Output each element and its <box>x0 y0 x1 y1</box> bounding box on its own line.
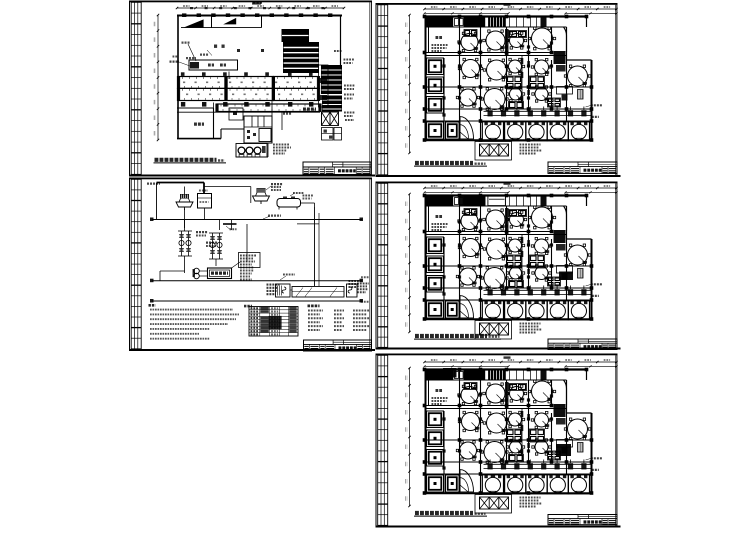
sheet1 (ground floor plan) left margin strip <box>131 2 141 174</box>
sheet4 (2F water plan) left margin strip <box>378 183 388 347</box>
AHU right margin labels <box>357 277 370 302</box>
sheet1 caption <box>154 160 227 163</box>
chilled pump labels <box>206 243 218 246</box>
supply air duct run 3 <box>272 76 320 101</box>
water inlet note <box>147 183 160 185</box>
sheet4 title block <box>548 339 617 350</box>
sheet5 (2F exhaust plan) outer frame <box>376 354 621 528</box>
sheet4 (2F water plan) outer frame <box>376 182 621 350</box>
sheet1 building outline <box>177 15 342 139</box>
right building wall upper <box>340 15 342 66</box>
chilled pump branch group <box>209 233 223 266</box>
pumps beside chiller <box>193 268 208 279</box>
sheet3 (water schematic) left margin strip <box>131 179 141 349</box>
elevator x-shaft <box>322 112 339 126</box>
chiller spec annotation <box>232 253 261 280</box>
horizontal chiller condenser <box>277 193 304 210</box>
sheet4 white shaft box <box>488 196 506 205</box>
small top-left labels <box>200 50 212 56</box>
top header pipes <box>157 183 251 220</box>
sheet2 (2F air plan) outer frame <box>376 3 621 177</box>
sheet5 title block <box>548 515 617 525</box>
main pipe header 2 <box>150 271 363 282</box>
condenser pump branch group <box>178 220 192 274</box>
condenser pump labels <box>196 232 208 235</box>
notes list <box>149 305 240 338</box>
equipment list <box>308 306 371 330</box>
cooling tower CT2 <box>253 188 270 204</box>
cooling tower CT1 <box>176 194 193 210</box>
bottom middle rooms <box>229 108 272 143</box>
supply air duct run 1 <box>177 76 228 101</box>
sheet2 (2F air plan) left margin strip <box>378 5 388 175</box>
fresh air arrow note <box>280 275 295 281</box>
AHU labels right <box>349 281 361 287</box>
misc vertical connectors <box>214 72 283 158</box>
louver stack right (black bars) <box>321 65 342 112</box>
shaft column <box>319 65 329 107</box>
sheet1 title block <box>303 162 371 175</box>
sheet1 (ground floor plan) outer frame <box>129 1 375 177</box>
sheet3 title block <box>304 340 372 351</box>
sheet2 caption <box>414 163 487 166</box>
sheet2 title block <box>548 162 617 173</box>
main pipe header 1 <box>150 216 363 221</box>
AHU labels left <box>267 285 280 295</box>
chiller unit box <box>208 268 232 279</box>
left margin notes <box>170 57 191 67</box>
sheet4 black equipment <box>460 196 486 206</box>
small grid rooms right bottom <box>322 128 342 141</box>
legend table <box>244 306 298 336</box>
diffuser blob row <box>181 102 314 107</box>
exhaust duct band B <box>215 104 321 113</box>
sheet5 black equipment <box>443 368 457 378</box>
riser pipes <box>185 203 320 286</box>
exhaust room label <box>283 109 316 114</box>
ramp triangles top-left <box>181 16 262 28</box>
sheet1 left dimension line <box>154 14 159 141</box>
main pipe header 3 <box>150 299 363 303</box>
exhaust fans row <box>236 144 267 158</box>
sheet1 top dimension line <box>176 2 345 9</box>
sheet1 top wall columns <box>182 3 332 18</box>
hall label <box>181 46 313 76</box>
sheet5 caption <box>414 513 487 516</box>
louver stack top (black bars) <box>282 29 320 73</box>
sheet2 floor plan <box>405 3 617 160</box>
sheet5 (2F exhaust plan) left margin strip <box>378 355 388 525</box>
sheet5 floor plan <box>405 356 617 513</box>
CT2 labels <box>266 184 283 190</box>
sheet4 caption <box>414 336 501 339</box>
supply air duct run 2 <box>224 76 275 101</box>
machine room box <box>182 43 238 70</box>
sheet4 floor plan <box>405 182 617 339</box>
expansion tank <box>198 191 212 220</box>
sheet3 (water schematic) outer frame <box>129 178 375 352</box>
laundry room label <box>194 122 204 125</box>
right margin annotations <box>334 51 355 120</box>
fan leader notes <box>273 145 291 154</box>
condenser water labels <box>303 196 314 199</box>
AHU fan-coil assembly <box>276 284 358 297</box>
duct interior diffuser marks <box>183 82 315 96</box>
